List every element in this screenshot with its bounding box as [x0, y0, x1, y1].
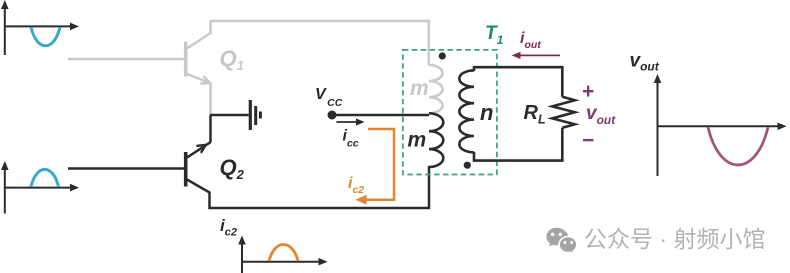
svg-text:−: − — [582, 129, 594, 152]
primary winding upper half m (gray) — [429, 65, 443, 113]
output waveform (rose negative half-sine) — [708, 127, 768, 165]
transformer T1 boundary (green dashed) — [403, 50, 497, 175]
wire: emitter junction to ground — [210, 114, 249, 117]
transistor Q2 — [186, 115, 429, 208]
watermark wechat logo — [546, 228, 577, 254]
input graph axes (top-left) — [5, 6, 73, 55]
svg-text:ic2: ic2 — [348, 175, 364, 196]
input graph axes (bottom-left) — [5, 167, 73, 214]
current arrow icc — [337, 121, 358, 123]
svg-text:T1: T1 — [485, 23, 504, 47]
resistor RL — [552, 97, 575, 128]
Q1 emitter arrowhead (gray) — [200, 76, 210, 84]
current path ic2 (orange elbow) — [362, 129, 394, 200]
transistor Q1 (gray, faded) — [186, 21, 211, 115]
svg-text:RL: RL — [524, 102, 546, 127]
svg-text:m: m — [410, 77, 429, 100]
waveform ic2 (orange positive half-sine) — [269, 245, 298, 262]
svg-text:Q2: Q2 — [220, 155, 245, 182]
svg-text:iout: iout — [520, 30, 541, 51]
wire: Q2 base wire — [68, 167, 184, 170]
svg-text:vout: vout — [586, 103, 616, 127]
svg-text:n: n — [480, 100, 493, 125]
svg-text:vout: vout — [630, 51, 660, 74]
node VCC dot — [328, 111, 337, 120]
svg-text:icc: icc — [343, 128, 359, 150]
svg-text:m: m — [408, 128, 427, 151]
output graph axes — [658, 80, 781, 176]
polarity dot secondary (bottom) — [464, 162, 471, 169]
bottom graph axes — [242, 241, 321, 273]
wire: load bottom to secondary — [474, 128, 562, 161]
wire: VCC to transformer center tap — [332, 114, 429, 117]
Q2 emitter arrowhead — [196, 145, 205, 153]
current arrow iout (maroon) — [518, 54, 560, 56]
ground — [250, 100, 260, 130]
svg-text:公众号 · 射频小馆: 公众号 · 射频小馆 — [584, 226, 765, 252]
polarity dot primary (top) — [439, 52, 446, 59]
wire: Q1 base wire (gray) — [68, 58, 184, 61]
input waveform vb1 (blue negative half-sine) — [31, 27, 60, 46]
svg-text:+: + — [582, 80, 594, 103]
primary winding lower half m (black) — [429, 113, 443, 167]
svg-text:Q1: Q1 — [220, 46, 244, 73]
input waveform vb2 (blue positive half-sine) — [31, 169, 59, 186]
secondary winding n — [459, 70, 474, 152]
wire: top rail from Q1 collector to transformer (gray) — [210, 21, 429, 65]
svg-text:VCC: VCC — [315, 86, 343, 109]
wire: secondary top to load — [474, 67, 562, 97]
svg-text:ic2: ic2 — [220, 216, 237, 239]
